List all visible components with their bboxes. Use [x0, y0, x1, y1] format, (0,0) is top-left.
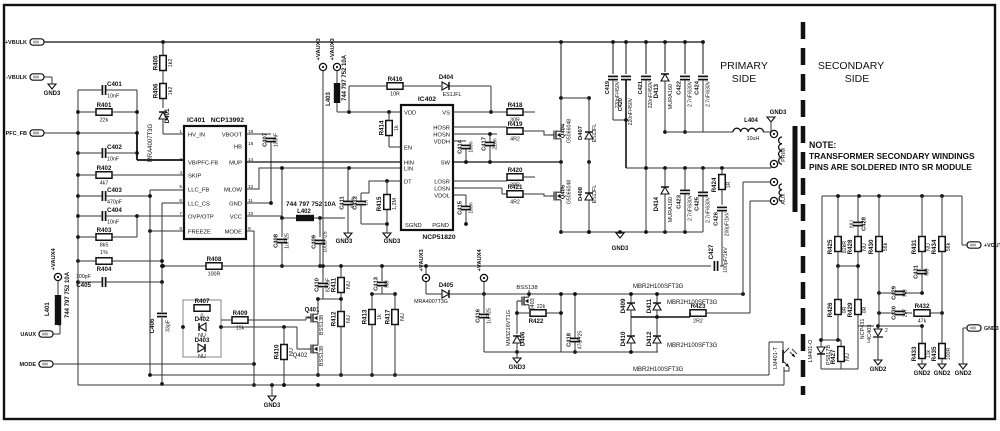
svg-text:C422: C422	[677, 81, 683, 95]
svg-text:15: 15	[248, 141, 254, 147]
svg-text:L403: L403	[326, 92, 332, 106]
svg-text:6: 6	[179, 198, 182, 204]
svg-text:1: 1	[179, 129, 182, 135]
svg-text:VBOOT: VBOOT	[222, 132, 243, 138]
svg-text:2.7nF/630V: 2.7nF/630V	[706, 80, 712, 107]
svg-text:GND2: GND2	[870, 367, 887, 373]
svg-text:2.7nF/630V: 2.7nF/630V	[706, 196, 712, 223]
svg-text:TRANSFORMER SECONDARY WINDINGS: TRANSFORMER SECONDARY WINDINGS	[809, 151, 975, 161]
svg-text:56k: 56k	[883, 242, 889, 251]
svg-text:C420: C420	[618, 98, 624, 111]
svg-text:D410: D410	[620, 331, 627, 346]
svg-text:R402: R402	[97, 165, 112, 172]
svg-text:+VAUX3: +VAUX3	[316, 37, 322, 60]
svg-text:MURA160: MURA160	[668, 84, 674, 109]
svg-text:10R: 10R	[390, 91, 400, 97]
svg-text:R409: R409	[233, 310, 248, 317]
svg-text:+VAUX3: +VAUX3	[419, 248, 425, 271]
svg-text:MODE: MODE	[225, 229, 243, 235]
svg-text:1k2: 1k2	[168, 87, 174, 96]
svg-text:SECONDARY: SECONDARY	[818, 60, 884, 72]
svg-text:G5066048: G5066048	[567, 180, 573, 204]
svg-text:1,2M: 1,2M	[392, 198, 398, 210]
svg-text:SGND: SGND	[405, 223, 422, 229]
svg-text:D404: D404	[439, 75, 454, 81]
svg-text:D409: D409	[620, 298, 627, 313]
svg-text:R413: R413	[362, 309, 369, 324]
svg-text:IC403: IC403	[867, 325, 873, 340]
svg-text:22k: 22k	[537, 304, 546, 310]
svg-text:8: 8	[179, 226, 182, 232]
svg-text:R429: R429	[847, 302, 854, 317]
svg-text:56k: 56k	[946, 242, 952, 251]
svg-text:C431: C431	[914, 264, 920, 279]
svg-text:SW: SW	[441, 160, 451, 166]
svg-text:R434: R434	[931, 239, 938, 254]
svg-text:L402: L402	[297, 209, 311, 215]
svg-text:PINS ARE SOLDERED INTO SR MOD: PINS ARE SOLDERED INTO SR MODULE	[809, 162, 972, 172]
svg-text:PRIM: PRIM	[781, 148, 787, 162]
svg-text:+VAUX3: +VAUX3	[330, 37, 336, 60]
svg-text:C404: C404	[107, 207, 122, 214]
svg-text:VDD: VDD	[404, 110, 416, 116]
svg-text:R427: R427	[830, 349, 837, 364]
svg-text:MBR2H100SFT3G: MBR2H100SFT3G	[633, 367, 684, 373]
svg-text:R408: R408	[207, 256, 222, 263]
svg-text:C407: C407	[263, 133, 269, 147]
svg-text:PRIMARY: PRIMARY	[720, 60, 768, 72]
svg-text:MODE: MODE	[20, 362, 37, 368]
svg-text:R410: R410	[274, 344, 281, 359]
svg-text:R419: R419	[508, 121, 523, 128]
svg-text:47k: 47k	[918, 318, 927, 324]
svg-text:BSS138: BSS138	[516, 285, 537, 291]
svg-text:33pF: 33pF	[166, 319, 172, 332]
svg-text:2.7nF/630V: 2.7nF/630V	[688, 194, 694, 221]
svg-text:C424: C424	[695, 80, 701, 95]
svg-text:3: 3	[179, 157, 182, 163]
svg-text:R430: R430	[868, 239, 875, 254]
svg-text:8k5: 8k5	[100, 242, 109, 248]
svg-text:D408: D408	[578, 186, 584, 201]
svg-text:D402: D402	[195, 316, 210, 323]
svg-text:1k: 1k	[377, 314, 383, 320]
svg-text:R422: R422	[529, 318, 544, 325]
svg-text:L401: L401	[45, 302, 51, 316]
svg-text:C409: C409	[312, 234, 318, 249]
svg-text:2R2: 2R2	[693, 318, 703, 324]
svg-text:AUX: AUX	[781, 193, 787, 205]
svg-text:D403: D403	[195, 337, 210, 344]
svg-text:100n: 100n	[469, 202, 475, 213]
svg-text:+VOUT: +VOUT	[984, 243, 1000, 249]
svg-text:IC401: IC401	[187, 117, 205, 124]
svg-text:1n: 1n	[364, 200, 370, 206]
svg-text:100n: 100n	[469, 141, 475, 152]
svg-text:15k: 15k	[236, 325, 245, 331]
svg-text:2: 2	[885, 328, 888, 334]
svg-text:HB: HB	[234, 144, 242, 150]
svg-text:D406: D406	[521, 331, 527, 346]
svg-text:R420: R420	[508, 167, 523, 174]
svg-text:HOSR: HOSR	[433, 125, 450, 131]
svg-text:GND3: GND3	[384, 239, 401, 245]
svg-text:MRA4007T3G: MRA4007T3G	[414, 299, 448, 305]
svg-text:+VAUX4: +VAUX4	[51, 247, 57, 270]
svg-text:C408: C408	[274, 233, 280, 248]
svg-text:R433: R433	[911, 346, 918, 361]
svg-text:GND3: GND3	[44, 91, 61, 97]
svg-text:3: 3	[867, 339, 870, 345]
svg-text:C415: C415	[458, 200, 464, 215]
svg-text:C423: C423	[677, 194, 683, 209]
svg-text:100R: 100R	[946, 347, 952, 360]
svg-text:NU: NU	[850, 220, 856, 228]
svg-text:NU: NU	[400, 313, 406, 321]
svg-text:SIDE: SIDE	[732, 73, 757, 85]
svg-text:VCC: VCC	[230, 214, 242, 220]
svg-text:4k7: 4k7	[100, 180, 109, 186]
svg-text:VDDH: VDDH	[434, 139, 450, 145]
svg-text:100nF: 100nF	[274, 133, 280, 147]
svg-text:DT: DT	[404, 179, 412, 185]
svg-text:PFC_FB: PFC_FB	[6, 131, 27, 137]
svg-text:R421: R421	[508, 184, 523, 191]
svg-text:R428: R428	[847, 239, 854, 254]
svg-text:VS: VS	[442, 110, 450, 116]
svg-text:C410: C410	[315, 278, 321, 292]
svg-text:744 797 752 10A: 744 797 752 10A	[286, 201, 336, 208]
svg-text:D405: D405	[439, 283, 454, 289]
svg-text:C421: C421	[638, 81, 644, 94]
svg-text:LM401-O: LM401-O	[808, 339, 814, 363]
svg-text:ES1JFL: ES1JFL	[592, 185, 598, 204]
svg-text:LLC_CS: LLC_CS	[188, 201, 210, 207]
svg-text:NCP13992: NCP13992	[211, 117, 244, 124]
svg-text:1k2: 1k2	[168, 59, 174, 68]
svg-text:1uF/25: 1uF/25	[285, 233, 291, 249]
svg-text:LM401-T: LM401-T	[773, 346, 779, 369]
svg-text:C416: C416	[476, 308, 482, 323]
svg-text:NU: NU	[845, 353, 851, 361]
svg-text:C414: C414	[458, 139, 464, 154]
svg-text:D411: D411	[646, 298, 653, 313]
svg-text:22k: 22k	[100, 117, 109, 123]
svg-text:C413: C413	[374, 276, 380, 291]
svg-text:1%: 1%	[100, 250, 108, 256]
svg-text:4: 4	[179, 170, 182, 176]
svg-text:C405: C405	[76, 282, 91, 289]
svg-text:10uH: 10uH	[747, 136, 760, 142]
svg-text:ES1JFL: ES1JFL	[592, 124, 598, 143]
svg-text:GND3: GND3	[984, 326, 999, 332]
svg-text:GND2: GND2	[934, 371, 951, 377]
svg-text:+VBULK: +VBULK	[5, 40, 27, 46]
svg-text:NU: NU	[925, 268, 931, 276]
svg-text:MM3Z16VT1G: MM3Z16VT1G	[506, 310, 512, 346]
svg-text:R405: R405	[153, 55, 160, 70]
svg-text:MUP: MUP	[229, 160, 242, 166]
svg-text:R411: R411	[331, 277, 338, 292]
svg-text:C402: C402	[107, 144, 122, 151]
svg-text:GND3: GND3	[612, 246, 629, 252]
svg-text:100pF/1kV: 100pF/1kV	[723, 247, 729, 273]
svg-text:NCP431: NCP431	[860, 319, 866, 340]
svg-text:10nF: 10nF	[107, 220, 120, 226]
svg-text:R403: R403	[97, 227, 112, 234]
svg-text:EN: EN	[404, 145, 412, 151]
svg-text:GND3: GND3	[264, 403, 281, 409]
svg-text:R401: R401	[97, 102, 112, 109]
svg-text:NU: NU	[289, 348, 295, 356]
svg-text:R414: R414	[379, 120, 386, 135]
svg-text:R404: R404	[97, 266, 112, 273]
svg-text:R423: R423	[691, 303, 706, 310]
svg-text:220nF/450V: 220nF/450V	[628, 97, 634, 125]
svg-text:D407: D407	[578, 126, 584, 140]
svg-text:5: 5	[179, 184, 182, 190]
svg-text:R426: R426	[827, 302, 834, 317]
svg-text:1uF/25: 1uF/25	[487, 308, 493, 324]
svg-text:R415: R415	[376, 196, 383, 211]
svg-text:D412: D412	[646, 331, 653, 346]
svg-text:10nF: 10nF	[107, 157, 120, 163]
svg-text:LLC_FB: LLC_FB	[188, 187, 209, 193]
svg-text:R412: R412	[331, 311, 338, 326]
svg-text:200pF/1kV: 200pF/1kV	[725, 211, 731, 236]
svg-text:GND3: GND3	[509, 365, 526, 371]
svg-text:10nF: 10nF	[107, 94, 120, 100]
svg-text:7: 7	[179, 211, 182, 217]
svg-text:1R: 1R	[726, 181, 732, 188]
svg-text:R435: R435	[931, 346, 938, 361]
svg-text:GND2: GND2	[914, 371, 931, 377]
svg-text:C403: C403	[107, 187, 122, 194]
svg-text:C419: C419	[605, 81, 611, 94]
svg-text:LOSN: LOSN	[434, 186, 450, 192]
svg-text:R424: R424	[711, 177, 718, 192]
svg-text:R407: R407	[195, 298, 210, 305]
svg-text:C425: C425	[695, 196, 701, 211]
svg-text:470pF: 470pF	[107, 200, 123, 206]
svg-text:BSS138: BSS138	[319, 315, 325, 335]
svg-text:R432: R432	[915, 303, 930, 310]
svg-text:VB/PFC-FB: VB/PFC-FB	[188, 160, 218, 166]
svg-text:ES1JFL: ES1JFL	[443, 92, 462, 98]
svg-text:744 797 752 10A: 744 797 752 10A	[65, 271, 71, 318]
svg-text:C417: C417	[482, 137, 488, 151]
svg-text:D414: D414	[654, 196, 660, 211]
svg-text:NU: NU	[385, 280, 391, 288]
svg-text:C406: C406	[149, 318, 156, 333]
svg-text:R417: R417	[385, 309, 392, 324]
svg-text:VDOL: VDOL	[434, 193, 451, 199]
svg-text:LIN: LIN	[404, 166, 413, 172]
svg-text:MBR2H100SFT3G: MBR2H100SFT3G	[633, 284, 684, 290]
svg-text:220n: 220n	[493, 138, 499, 149]
svg-text:0R: 0R	[862, 306, 868, 313]
svg-text:MURA160: MURA160	[668, 197, 674, 222]
svg-text:G5066048: G5066048	[567, 119, 573, 143]
svg-text:1k: 1k	[394, 125, 400, 131]
svg-text:MLOW: MLOW	[224, 187, 243, 193]
svg-text:IC402: IC402	[418, 96, 436, 103]
svg-text:R418: R418	[508, 102, 523, 109]
svg-text:L404: L404	[744, 118, 758, 124]
svg-text:MBR2H100SFT3G: MBR2H100SFT3G	[667, 343, 718, 349]
svg-text:R416: R416	[388, 76, 403, 83]
svg-text:D413: D413	[654, 83, 660, 98]
svg-text:OVP/OTP: OVP/OTP	[188, 214, 214, 220]
svg-text:C401: C401	[107, 81, 122, 88]
svg-text:SIDE: SIDE	[845, 73, 870, 85]
svg-text:NOTE:: NOTE:	[809, 140, 836, 150]
svg-text:C411: C411	[340, 195, 346, 209]
svg-text:UAUX: UAUX	[20, 332, 36, 338]
svg-text:C418: C418	[567, 332, 573, 347]
svg-text:FREEZE: FREEZE	[188, 229, 211, 235]
svg-text:D401: D401	[164, 108, 171, 123]
svg-text:SKIP: SKIP	[188, 173, 201, 179]
svg-text:NU: NU	[346, 281, 352, 289]
svg-text:R425: R425	[827, 239, 834, 254]
svg-text:R431: R431	[911, 239, 918, 254]
svg-text:-VBULK: -VBULK	[6, 75, 27, 81]
svg-text:PGND: PGND	[432, 223, 449, 229]
svg-text:R406: R406	[153, 83, 160, 98]
svg-text:LOSR: LOSR	[434, 179, 450, 185]
svg-text:744 797 752 10A: 744 797 752 10A	[342, 54, 348, 101]
svg-text:NU: NU	[346, 315, 352, 323]
svg-text:NCP51820: NCP51820	[422, 234, 455, 241]
svg-text:C426: C426	[714, 211, 720, 226]
svg-text:C427: C427	[708, 244, 715, 259]
svg-text:BSS138: BSS138	[319, 346, 325, 366]
svg-text:HOSN: HOSN	[433, 132, 450, 138]
svg-text:2.7nF/630V: 2.7nF/630V	[688, 80, 694, 107]
svg-text:GND2: GND2	[955, 371, 972, 377]
svg-text:4R2: 4R2	[510, 136, 520, 142]
svg-text:GND3: GND3	[336, 239, 353, 245]
svg-text:GND3: GND3	[770, 110, 787, 116]
svg-text:C412: C412	[353, 196, 359, 210]
svg-text:HV_IN: HV_IN	[188, 132, 205, 138]
svg-text:NU: NU	[198, 354, 206, 360]
svg-text:MRA4007T3G: MRA4007T3G	[148, 123, 154, 162]
svg-text:GND: GND	[229, 201, 242, 207]
svg-text:100R: 100R	[208, 271, 221, 277]
svg-text:47uF/25: 47uF/25	[578, 331, 584, 350]
svg-text:+VAUX4: +VAUX4	[477, 248, 483, 271]
svg-text:4R2: 4R2	[510, 199, 520, 205]
svg-text:C428: C428	[862, 216, 868, 231]
